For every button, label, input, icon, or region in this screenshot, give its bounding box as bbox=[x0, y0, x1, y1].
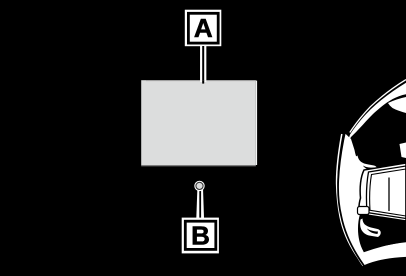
upper spoke hook notch black bbox=[363, 166, 375, 171]
leader line A tail into rect white nubs bbox=[200, 80, 202, 82]
svg-text:A: A bbox=[194, 13, 213, 43]
sensor dot white halo bbox=[194, 181, 204, 191]
steering wheel bbox=[337, 60, 406, 267]
rim inner white band sweeping top-right bbox=[347, 83, 406, 145]
hub inner screen outline bbox=[366, 166, 406, 219]
label A box white rim bbox=[185, 10, 222, 47]
label B box white rim bbox=[182, 218, 219, 254]
upper spoke thumb hook white bbox=[355, 156, 377, 174]
lower spoke thumb hook white bbox=[360, 219, 381, 238]
leader line A black core bbox=[202, 46, 204, 83]
hub inner screen second line bbox=[370, 169, 406, 216]
lower rim lower contour bbox=[364, 258, 406, 266]
leader line B black core bbox=[199, 188, 201, 221]
sensor dot bbox=[196, 182, 203, 189]
gray display rectangle bbox=[141, 80, 256, 165]
wheel white body bbox=[338, 61, 406, 266]
gray rectangle bottom edge shade bbox=[141, 165, 256, 167]
lower spoke black band bbox=[358, 214, 406, 252]
leader line A tail into rect black core bbox=[202, 80, 204, 83]
hub screen divider line bbox=[388, 178, 390, 212]
white corner wedge below band bbox=[388, 97, 406, 113]
white sliver above hub right edge bbox=[400, 143, 406, 159]
hub left notch tab white bbox=[358, 207, 370, 215]
label B box black border bbox=[185, 221, 216, 249]
rim top black fill and top spoke bbox=[343, 60, 406, 171]
lower rim upper contour bbox=[364, 242, 406, 252]
lower spoke hook notch black bbox=[367, 229, 378, 235]
leader line B white casing bbox=[196, 188, 204, 221]
label A box black border bbox=[188, 13, 218, 43]
gray rectangle right edge white strip bbox=[256, 81, 257, 165]
wheel outer rim contour bbox=[338, 61, 377, 266]
rim inner band outer halo bbox=[350, 80, 406, 133]
gray rectangle top edge shade bbox=[146, 80, 255, 82]
svg-text:B: B bbox=[191, 220, 210, 250]
wheel outer halo bbox=[337, 134, 364, 266]
hub white panel bbox=[359, 163, 406, 221]
leader line A white casing bbox=[200, 46, 206, 82]
